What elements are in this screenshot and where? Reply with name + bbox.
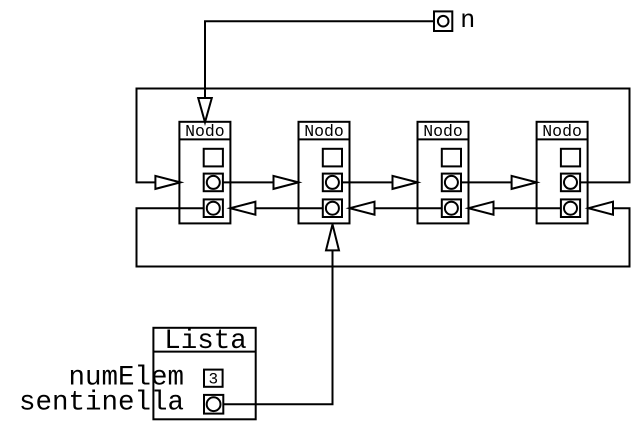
node Nodo4 prev pointer [561,199,580,217]
arrowhead next into node3 (right) [393,176,418,189]
node Nodo3 data field [442,149,461,167]
node Nodo4 next pointer [561,174,580,192]
node Nodo2 box [299,122,350,224]
node Nodo2 data field [323,149,342,167]
arrowhead prev into node1 (left) [230,202,255,215]
wire prev node4 -> node3 [494,207,561,209]
node Nodo3 next pointer [442,174,461,192]
svg-text:3: 3 [208,371,218,389]
arrowhead n->node1 (down) [198,98,212,122]
node Nodo1 prev pointer [204,199,223,217]
wire circular next: node4 -> top -> node1 [137,89,630,183]
sentinella pointer box [204,395,223,414]
numElem value box [204,370,223,387]
Lista box [153,328,255,420]
node Nodo1 box [179,122,230,224]
svg-text:Nodo: Nodo [423,122,463,141]
node Nodo1 data field [204,149,223,167]
arrowhead next into node4 (right) [512,176,537,189]
svg-text:n: n [460,6,475,35]
node Nodo1 next pointer [204,174,223,192]
arrowhead prev into node2 (left) [350,202,375,215]
arrowhead sentinella into node2 (up) [326,224,339,250]
wire from n to node 1 [205,21,434,98]
wire next node3 -> node4 [461,181,512,183]
node Nodo2 next pointer [323,174,342,192]
wire sentinella -> node2 [223,250,332,404]
svg-text:Nodo: Nodo [304,122,344,141]
node Nodo3 box [418,122,469,224]
arrowhead next into node2 (right) [274,176,299,189]
node Nodo2 prev pointer [323,199,342,217]
node Nodo3 prev pointer [442,199,461,217]
node Nodo4 data field [561,149,580,167]
pointer box n [434,11,452,31]
svg-text:Nodo: Nodo [542,122,582,141]
wire prev node3 -> node2 [375,207,442,209]
wire prev node2 -> node1 [255,207,322,209]
arrowhead circular next into node1 (right) [155,176,180,189]
wire circular prev: node1 -> bottom -> node4 [137,208,630,266]
svg-text:Lista: Lista [164,326,247,357]
svg-text:Nodo: Nodo [185,122,225,141]
wire next node1 -> node2 [223,181,274,183]
node Nodo4 box [537,122,588,224]
svg-text:sentinella: sentinella [19,387,184,418]
wire next node2 -> node3 [342,181,393,183]
arrowhead prev into node3 (left) [469,202,494,215]
arrowhead circular prev into node4 (left) [589,202,614,215]
